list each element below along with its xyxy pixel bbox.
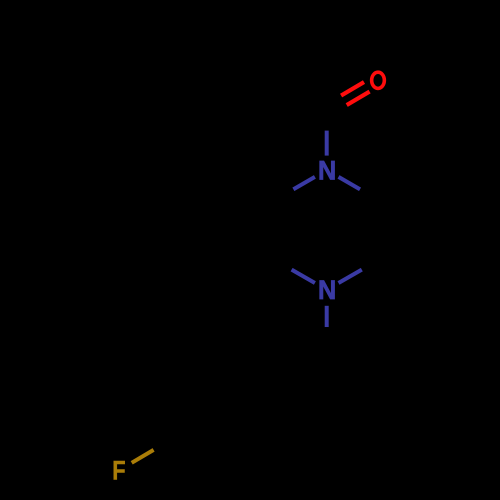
bond N4-CH2 blue half (325, 306, 329, 327)
bond C4'-F carbon half (154, 440, 171, 450)
svg-text:F: F (112, 456, 125, 486)
svg-text:N: N (318, 276, 336, 305)
bond N1-C6 carbon half (360, 189, 379, 200)
bond N1-C2 carbon half (275, 189, 294, 200)
bond C3-N4 carbon half (275, 260, 292, 270)
wire: CH2 to phenyl C1' (275, 350, 327, 380)
wire: methyl CH3 to carbonyl C (carbon bond, near-black) (275, 80, 327, 110)
bond N4-CH2 carbon half (325, 327, 329, 350)
C=O double bond oxygen halves (red) (341, 82, 370, 105)
capacitor-like C=O double bond carbon halves (near-black) (324, 96, 347, 116)
svg-text:N: N (318, 157, 336, 186)
atom O label (372, 72, 385, 88)
benzene inner aromatic double-bond lines (180, 363, 266, 456)
bond C4'-F fluorine half (gold) (132, 450, 154, 463)
bond carbonyl C to N1: carbon half (near-black) (325, 110, 329, 130)
bond C3-N4 blue half (292, 270, 315, 283)
bond N1-C2 blue half (293, 177, 315, 190)
benzene ring (carbon bonds, near-black) (171, 350, 275, 470)
wire: piperazine C2-C3 (carbon bond) (273, 200, 277, 260)
bond N1-C6 blue half (339, 177, 361, 190)
bond C5-N4 carbon half (362, 260, 379, 270)
wire: piperazine C6-C5 (carbon bond) (377, 200, 381, 260)
bond carbonyl C to N1: nitrogen half (blue) (325, 131, 329, 156)
bond C5-N4 blue half (339, 270, 362, 283)
